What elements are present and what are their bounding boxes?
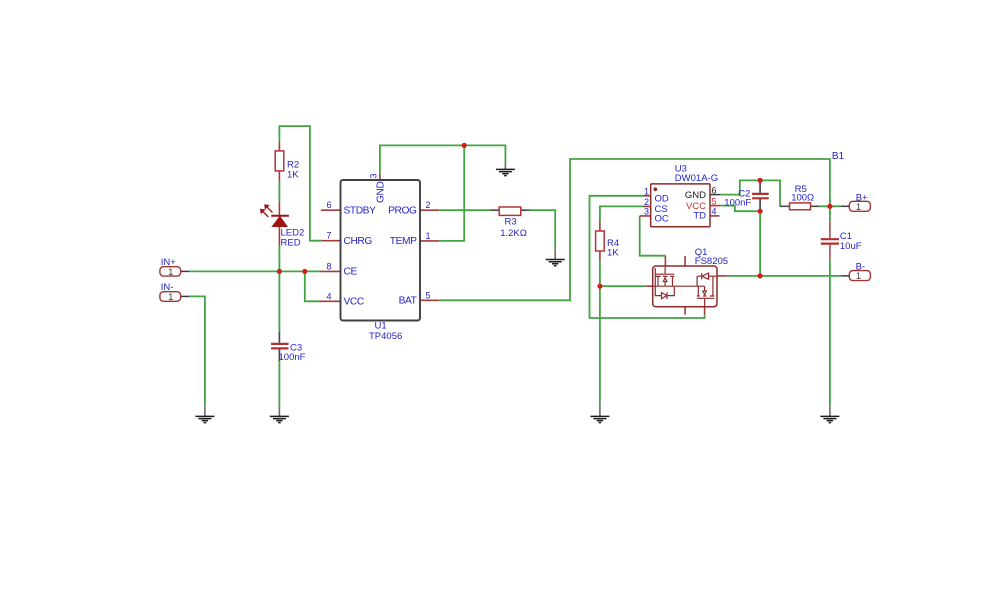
svg-text:TP4056: TP4056 bbox=[369, 331, 402, 342]
wire IN- to ground bbox=[189, 296, 205, 406]
wire U3 CS to R4 top bbox=[600, 206, 643, 222]
connector IN+ pin stub bbox=[181, 270, 190, 272]
svg-text:8: 8 bbox=[326, 261, 331, 271]
wire R3 right to ground bbox=[529, 210, 555, 250]
svg-text:CE: CE bbox=[344, 267, 358, 278]
svg-text:1K: 1K bbox=[287, 169, 299, 180]
connector B- bbox=[849, 271, 870, 283]
R4 labels bbox=[607, 238, 619, 258]
connector B+ pin stub bbox=[841, 205, 849, 207]
resistor R3 bbox=[490, 207, 529, 215]
IC U1 body bbox=[341, 180, 421, 321]
ground (C1/B-) bbox=[820, 406, 839, 422]
U3 pin 4 stub bbox=[710, 215, 720, 217]
connector IN- pin stub bbox=[181, 295, 190, 297]
R5 labels bbox=[791, 184, 814, 203]
U1 pin 7 CHRG stub bbox=[321, 240, 341, 242]
Q1 internal dual mosfet symbol bbox=[653, 266, 717, 307]
svg-text:B1: B1 bbox=[832, 151, 845, 162]
U3 pin numbers bbox=[644, 185, 717, 216]
svg-text:10uF: 10uF bbox=[840, 241, 862, 252]
U1 pin 5 BAT stub bbox=[420, 299, 439, 301]
wire U3 OC to Q1 gate1 bbox=[640, 216, 666, 256]
svg-text:1: 1 bbox=[856, 271, 861, 282]
ground (IN-) bbox=[195, 406, 214, 422]
wire PROG to R3 bbox=[439, 209, 490, 211]
svg-text:2: 2 bbox=[425, 200, 430, 210]
wire BAT rail to B+ bbox=[439, 159, 830, 300]
wire U3 OD to Q1 gate2 bbox=[590, 196, 705, 318]
wire U1 GND pin3 to top ground rail bbox=[380, 145, 506, 172]
svg-text:1: 1 bbox=[644, 187, 649, 197]
LED2 labels bbox=[281, 227, 305, 248]
resistor R5 bbox=[780, 203, 819, 210]
svg-text:100nF: 100nF bbox=[724, 197, 751, 208]
svg-text:U1: U1 bbox=[375, 321, 387, 332]
U1 pin 3 GND stub bbox=[379, 173, 381, 181]
capacitor C3 bbox=[271, 331, 288, 361]
wire B- line from Q1 to connector bbox=[727, 275, 841, 277]
R2 labels bbox=[287, 159, 299, 180]
wire B+ junction to C1 top bbox=[829, 206, 831, 222]
U1 reference labels bbox=[369, 321, 402, 342]
junction node dot (VCC jog) bbox=[302, 269, 307, 274]
B- label bbox=[856, 261, 866, 272]
U1 pin 1 TEMP stub bbox=[420, 240, 439, 242]
wire R5 right to B+ junction bbox=[819, 205, 841, 207]
svg-text:TD: TD bbox=[693, 210, 706, 221]
U3 pin 5 stub (red) bbox=[710, 205, 720, 207]
wire C2 bottom down to B- line bbox=[759, 211, 761, 276]
resistor R2 bbox=[275, 141, 284, 181]
ground (C3) bbox=[270, 406, 289, 422]
svg-text:BAT: BAT bbox=[399, 295, 417, 306]
junction node dot (B+ node) bbox=[827, 204, 832, 209]
U1 pin names bbox=[344, 182, 418, 308]
svg-text:6: 6 bbox=[711, 185, 716, 195]
wire R4 bottom to ground bbox=[599, 260, 601, 406]
IN- label bbox=[161, 282, 174, 293]
svg-text:STDBY: STDBY bbox=[344, 205, 377, 216]
ground (top, U1 GND rail) bbox=[496, 163, 515, 175]
junction node dot (B- line) bbox=[758, 273, 763, 278]
wire VCC jog from IN+ to U1 VCC bbox=[305, 271, 320, 301]
svg-text:1.2KΩ: 1.2KΩ bbox=[500, 228, 527, 239]
U1 pin numbers bbox=[326, 173, 430, 301]
net label B1 bbox=[832, 151, 845, 162]
svg-text:OC: OC bbox=[655, 214, 669, 225]
U3 pin names bbox=[655, 190, 707, 225]
svg-text:7: 7 bbox=[326, 231, 331, 241]
resistor R4 bbox=[596, 222, 605, 260]
U3 pin1 marker dot bbox=[653, 187, 657, 191]
svg-text:IN+: IN+ bbox=[161, 257, 177, 268]
svg-text:1: 1 bbox=[856, 202, 861, 213]
junction node dot (C2 top) bbox=[758, 178, 763, 183]
U1 pin 2 PROG stub bbox=[420, 209, 439, 211]
R3 labels bbox=[500, 216, 527, 238]
svg-text:5: 5 bbox=[711, 196, 716, 206]
svg-text:100Ω: 100Ω bbox=[791, 193, 814, 204]
junction node dot (LED/C3 on IN+ line) bbox=[277, 269, 282, 274]
IN+ label bbox=[161, 257, 177, 268]
capacitor C1 bbox=[821, 222, 839, 260]
connector B- pin stub bbox=[841, 275, 849, 277]
ground (R4) bbox=[590, 406, 609, 422]
svg-text:3: 3 bbox=[644, 207, 649, 217]
connector B+ bbox=[849, 201, 870, 213]
svg-text:1: 1 bbox=[168, 267, 173, 278]
svg-text:3: 3 bbox=[369, 173, 379, 178]
U1 pin 4 VCC stub bbox=[319, 300, 340, 302]
svg-text:5: 5 bbox=[425, 290, 430, 300]
U3 pin 6 stub (black) bbox=[710, 194, 720, 196]
C1 labels bbox=[840, 231, 862, 252]
svg-text:1: 1 bbox=[425, 231, 430, 241]
svg-text:6: 6 bbox=[326, 200, 331, 210]
svg-text:FS8205: FS8205 bbox=[695, 256, 728, 267]
wire R2 top to CHRG bbox=[279, 126, 321, 241]
U1 pin 6 STDBY stub bbox=[321, 209, 341, 211]
IC U3 body bbox=[651, 184, 710, 227]
connector IN+ bbox=[160, 267, 181, 278]
svg-text:2: 2 bbox=[644, 197, 649, 207]
wire TEMP net from top rail bbox=[439, 145, 464, 241]
wire R4 node to Q1 source1 bbox=[600, 285, 646, 287]
IC U3 pin stubs left bbox=[640, 196, 651, 216]
U1 pin 8 CE stub bbox=[319, 270, 340, 272]
junction node dot (R4 / Q1 source) bbox=[597, 284, 602, 289]
svg-text:4: 4 bbox=[711, 207, 716, 217]
C3 labels bbox=[279, 343, 306, 363]
svg-text:B-: B- bbox=[856, 261, 866, 272]
svg-text:RED: RED bbox=[281, 237, 301, 248]
transistor Q1 pin stubs bbox=[646, 256, 727, 315]
svg-text:TEMP: TEMP bbox=[390, 236, 417, 247]
svg-text:GND: GND bbox=[376, 182, 387, 203]
svg-text:PROG: PROG bbox=[388, 205, 417, 216]
wire U3 GND pin6 over C2 to R5 bbox=[720, 180, 781, 205]
svg-text:DW01A-G: DW01A-G bbox=[675, 173, 718, 184]
svg-text:1: 1 bbox=[168, 292, 173, 303]
U3 reference labels bbox=[675, 164, 718, 185]
svg-text:B+: B+ bbox=[856, 192, 868, 203]
LED LED2 bbox=[260, 201, 289, 245]
capacitor C2 bbox=[752, 180, 769, 211]
svg-text:OD: OD bbox=[655, 194, 669, 205]
svg-text:IN-: IN- bbox=[161, 282, 174, 293]
connector IN- bbox=[160, 292, 181, 304]
wire C3 bottom to ground bbox=[278, 361, 280, 406]
svg-text:VCC: VCC bbox=[344, 296, 364, 307]
junction node dot (GND rail / TEMP) bbox=[462, 143, 467, 148]
transistor Q1 body bbox=[653, 266, 717, 307]
wire R2 bottom to LED anode bbox=[278, 181, 280, 201]
svg-text:4: 4 bbox=[326, 291, 331, 301]
C2 labels bbox=[724, 189, 751, 209]
wire LED cathode to IN+ line to C3 bbox=[278, 246, 280, 332]
B+ label bbox=[856, 192, 868, 203]
wire IN+ net horizontal bbox=[189, 270, 319, 272]
svg-text:R3: R3 bbox=[505, 216, 517, 227]
Q1 reference labels bbox=[695, 247, 728, 267]
svg-text:GND: GND bbox=[685, 190, 706, 201]
wire C1 bottom to ground bbox=[829, 260, 831, 407]
svg-text:1K: 1K bbox=[607, 247, 619, 258]
wire U3 VCC pin5 to C2 bottom bbox=[720, 206, 760, 212]
svg-text:100nF: 100nF bbox=[279, 352, 306, 363]
junction node dot (C2 bottom) bbox=[758, 209, 763, 214]
ground (R3) bbox=[546, 250, 565, 266]
svg-text:CHRG: CHRG bbox=[344, 236, 373, 247]
